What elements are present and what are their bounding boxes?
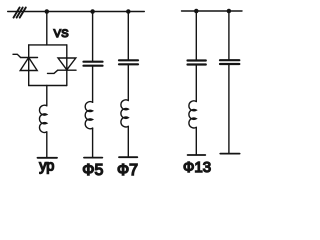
capacitor C13b: [220, 60, 239, 64]
inductor Ф7: [121, 100, 128, 127]
wire: capacitor to inductor Ф13: [195, 66, 197, 102]
wire: bus to capacitor Ф7: [127, 12, 129, 60]
svg-text:Ф5: Ф5: [82, 162, 103, 179]
wire: capacitor to inductor Ф5: [92, 67, 94, 103]
svg-text:Ф7: Ф7: [117, 162, 138, 179]
terminal bar C13b: [220, 153, 239, 155]
inductor Ф13: [189, 101, 196, 128]
thyristor VS right (conducting down): [58, 45, 76, 86]
wire: inductor Ф13 to terminal: [195, 127, 197, 154]
wire: reactor to terminal: [46, 132, 48, 158]
surge arrester VS: bottom rail: [29, 85, 67, 87]
terminal bar Ф7: [119, 156, 137, 158]
wire: bus 2 to capacitor C13b: [228, 11, 230, 59]
wire: bus to VS top rail: [46, 12, 48, 45]
wire: capacitor C13b to terminal: [228, 65, 230, 153]
capacitor Ф5: [84, 62, 103, 66]
node: junction at C7 drop: [126, 9, 131, 14]
wire: inductor Ф7 to terminal: [127, 126, 129, 157]
wire: top bus 1: [8, 11, 145, 13]
inductor УР (smoothing reactor): [39, 105, 46, 132]
svg-text:Ф13: Ф13: [183, 159, 211, 176]
inductor Ф5: [85, 102, 92, 129]
wire: VS bottom rail to reactor: [46, 86, 48, 106]
surge arrester VS: top rail: [29, 44, 67, 46]
terminal bar Ф5: [84, 157, 102, 159]
node: junction at VS drop: [45, 9, 50, 14]
svg-text:VS: VS: [54, 28, 69, 40]
wire: top bus 2: [182, 10, 243, 12]
wire: capacitor to inductor Ф7: [127, 65, 129, 100]
wire: inductor Ф5 to terminal: [92, 128, 94, 157]
capacitor Ф7: [119, 60, 138, 64]
node: junction at C5 drop: [90, 9, 95, 14]
node: junction at C13b drop: [227, 9, 232, 14]
wire: bus to capacitor Ф5: [92, 12, 94, 61]
terminal bar Ф13: [188, 154, 206, 156]
thyristor VS left (conducting up): [20, 45, 37, 86]
gate of right thyristor: [48, 70, 58, 73]
svg-text:ур: ур: [39, 159, 54, 175]
terminal bar УР: [38, 157, 58, 159]
node: junction at C13a drop: [194, 9, 199, 14]
capacitor Ф13: [188, 61, 206, 65]
wire: bus 2 to capacitor Ф13: [195, 11, 197, 59]
gate of left thyristor: [13, 54, 21, 57]
contact network symbol (hatched feed): [14, 8, 26, 18]
